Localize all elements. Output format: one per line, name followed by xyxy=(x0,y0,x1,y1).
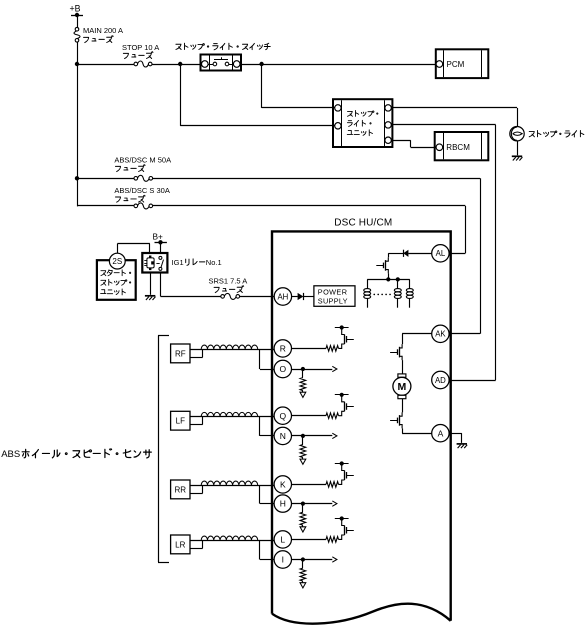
wire stop light unit to RBCM xyxy=(391,140,436,147)
wire sensor LF return to pin N xyxy=(260,417,275,436)
pin O of DSC HU/CM xyxy=(274,360,291,377)
wire ABS/DSC M 50A feed to DSC pin AK xyxy=(77,178,481,333)
wire pin N test point arrow xyxy=(292,433,337,438)
svg-text:SUPPLY: SUPPLY xyxy=(318,297,348,306)
wire solenoid rail xyxy=(367,279,410,281)
label stop light lamp xyxy=(529,131,584,138)
bracket ABS wheel speed sensor group xyxy=(158,336,169,563)
svg-text:O: O xyxy=(279,364,286,374)
svg-text:2S: 2S xyxy=(112,257,122,266)
pin N of DSC HU/CM xyxy=(274,427,291,444)
wire sensor RR return to pin H xyxy=(260,485,275,503)
block POWER SUPPLY xyxy=(314,286,355,307)
fuse ABS/DSC M 50A xyxy=(134,175,153,181)
wire sensor RR twisted pair to pin K xyxy=(190,481,274,493)
node B+ terminal xyxy=(153,231,167,244)
pin AK of DSC HU/CM xyxy=(432,325,449,342)
wire relay to SRS1 fuse to DSC pin AH xyxy=(161,273,275,297)
svg-text:PCM: PCM xyxy=(447,60,465,69)
pin AH of DSC HU/CM xyxy=(274,288,291,305)
svg-text:No.1: No.1 xyxy=(206,258,222,267)
svg-text:DSC HU/CM: DSC HU/CM xyxy=(334,218,392,229)
svg-text:ABS/DSC S 30A: ABS/DSC S 30A xyxy=(114,186,169,195)
label stop light switch xyxy=(176,43,270,50)
wire relay coil to ground xyxy=(150,273,152,295)
resistor pull-down I xyxy=(300,560,306,583)
label ABS/DSC M 50A fuse xyxy=(114,155,171,171)
wire sensor RF return to pin O xyxy=(260,349,275,369)
label ABS wheel speed sensors xyxy=(1,449,151,461)
node +B battery terminal xyxy=(70,4,84,18)
pin R of DSC HU/CM xyxy=(274,340,291,357)
wire B+ into relay xyxy=(160,242,162,253)
ground reference arrow I xyxy=(300,583,306,588)
svg-text:Q: Q xyxy=(279,411,286,421)
svg-text:R: R xyxy=(280,343,286,353)
svg-text:I: I xyxy=(282,555,284,565)
ground reference arrow H xyxy=(300,527,306,532)
svg-text:+B: +B xyxy=(70,4,81,14)
wire pin I test point arrow xyxy=(292,557,337,562)
wire sensor LR twisted pair to pin L xyxy=(190,536,274,548)
connector U2 stop light unit xyxy=(333,99,392,147)
wire stop light unit to DSC pin AD xyxy=(391,125,495,381)
svg-text:ABS: ABS xyxy=(1,449,20,460)
coil L3 solenoid valve xyxy=(406,279,413,307)
wire junction to stop-light unit upper-left pin xyxy=(262,64,335,108)
node coil 2 junction xyxy=(396,277,400,281)
ground relay coil xyxy=(145,296,156,300)
label start-stop unit xyxy=(101,270,131,295)
svg-text:N: N xyxy=(280,431,286,441)
node pin I junction xyxy=(301,557,305,561)
motor M1 ABS pump motor xyxy=(393,374,411,399)
resistor pull-down O xyxy=(300,369,306,392)
svg-text:H: H xyxy=(280,499,286,509)
wire main stop-light feed xyxy=(77,64,436,66)
wire ABS/DSC S 30A feed to DSC pin AL xyxy=(77,206,466,254)
wire junction to stop-light unit lower-left pin xyxy=(180,64,335,126)
sensor LF ABS wheel speed sensor xyxy=(171,411,190,430)
pin AD of DSC HU/CM xyxy=(432,371,449,388)
wire stop light unit to stop light lamp xyxy=(391,108,517,127)
transistor sensor comparator R xyxy=(335,325,354,344)
ground reference arrow N xyxy=(300,459,306,464)
fuse MAIN 200 A xyxy=(74,27,80,42)
connector U1 PCM xyxy=(436,49,489,78)
svg-text:RBCM: RBCM xyxy=(446,143,470,152)
svg-text:MAIN 200 A: MAIN 200 A xyxy=(83,26,123,35)
svg-text:K: K xyxy=(280,479,286,489)
diode D2 solenoid supply xyxy=(388,250,431,257)
relay K1 IG1 relay No.1 xyxy=(142,253,167,273)
svg-text:LF: LF xyxy=(176,417,185,426)
label stop light unit xyxy=(347,110,378,135)
wire start-stop unit pin 2S to relay coil xyxy=(117,244,149,254)
pin AL of DSC HU/CM xyxy=(432,245,449,262)
wire +B vertical feed xyxy=(77,15,79,206)
svg-text:POWER: POWER xyxy=(318,287,348,296)
transistor Q1 solenoid driver xyxy=(376,253,388,279)
wire mosfet to pin A xyxy=(402,428,432,433)
wire sensor LR return to pin I xyxy=(260,540,275,559)
resistor input filter K xyxy=(292,480,345,487)
module U5 DSC HU/CM enclosure xyxy=(272,231,451,623)
wire dotted more-coils indication xyxy=(374,293,394,295)
transistor sensor comparator L xyxy=(335,516,354,535)
sensor RF ABS wheel speed sensor xyxy=(171,344,190,363)
svg-text:IG1: IG1 xyxy=(172,258,184,267)
label IG1 relay No.1 xyxy=(172,258,222,267)
resistor input filter L xyxy=(292,535,345,542)
wire sensor LF twisted pair to pin Q xyxy=(190,412,274,424)
node junction +B / stop-light feed xyxy=(75,62,79,66)
resistor pull-down H xyxy=(300,504,306,527)
svg-text:AD: AD xyxy=(435,376,446,385)
svg-text:M: M xyxy=(398,381,407,393)
wire mosfet to motor xyxy=(402,360,404,374)
node pin O junction xyxy=(301,367,305,371)
label SRS1 7.5 A fuse xyxy=(209,277,248,293)
svg-text:AL: AL xyxy=(436,249,446,258)
connector U3 RBCM xyxy=(435,132,489,160)
transistor sensor comparator Q xyxy=(335,393,354,412)
switch S1 stop light switch xyxy=(201,55,242,71)
fuse SRS1 7.5 A xyxy=(221,293,240,299)
svg-text:RF: RF xyxy=(175,349,186,358)
svg-text:L: L xyxy=(280,534,285,544)
pin A of DSC HU/CM xyxy=(432,425,449,442)
svg-text:RR: RR xyxy=(175,485,187,494)
transistor sensor comparator K xyxy=(335,461,354,480)
pin Q of DSC HU/CM xyxy=(274,407,291,424)
ground stop light lamp xyxy=(512,156,523,160)
pin L of DSC HU/CM xyxy=(274,531,291,548)
resistor input filter Q xyxy=(292,411,345,418)
node pin H junction xyxy=(301,502,305,506)
wire pin A to ground xyxy=(449,433,462,443)
node junction to stop-light unit pin A xyxy=(259,62,263,66)
wire pin O test point arrow xyxy=(292,366,337,371)
node junction to stop-light unit pin B xyxy=(178,62,182,66)
coil L2 solenoid valve xyxy=(394,279,401,307)
label MAIN 200 A fuse xyxy=(83,26,123,42)
svg-text:LR: LR xyxy=(175,540,185,549)
fuse ABS/DSC S 30A xyxy=(134,203,153,209)
svg-text:ABS/DSC M 50A: ABS/DSC M 50A xyxy=(114,155,171,164)
node pin N junction xyxy=(301,434,305,438)
wire AK to pump motor branch xyxy=(402,334,432,345)
sensor LR ABS wheel speed sensor xyxy=(171,535,190,554)
transistor Q3 motor driver low xyxy=(390,412,402,428)
svg-text:A: A xyxy=(438,428,444,438)
sensor RR ABS wheel speed sensor xyxy=(171,480,190,499)
ground reference arrow O xyxy=(300,392,306,397)
svg-text:STOP 10 A: STOP 10 A xyxy=(122,43,159,52)
diode D1 power supply input xyxy=(292,293,314,300)
node solenoid rail junction xyxy=(386,277,390,281)
pin H of DSC HU/CM xyxy=(274,495,291,512)
wire pin H test point arrow xyxy=(292,501,337,506)
label DSC HU/CM xyxy=(334,218,392,229)
resistor input filter R xyxy=(292,344,345,351)
ground DSC pin A xyxy=(457,444,468,448)
resistor pull-down N xyxy=(300,436,306,459)
svg-text:B+: B+ xyxy=(153,231,164,241)
pin 2S of start-stop unit xyxy=(109,253,125,269)
fuse STOP 10 A xyxy=(134,61,152,67)
pin K of DSC HU/CM xyxy=(274,476,291,493)
label ABS/DSC S 30A fuse xyxy=(114,186,169,202)
transistor Q2 motor driver high xyxy=(390,344,402,360)
svg-text:AK: AK xyxy=(435,330,446,339)
label STOP 10 A fuse xyxy=(122,43,159,59)
svg-text:AH: AH xyxy=(277,292,288,301)
node junction ABS/DSC M fuse tap xyxy=(75,176,79,180)
wire motor to low-side mosfet xyxy=(402,399,404,413)
lamp E1 stop light xyxy=(510,127,524,141)
pin I of DSC HU/CM xyxy=(274,551,291,568)
coil L1 solenoid valve xyxy=(364,279,371,307)
wire sensor RF twisted pair to pin R xyxy=(190,345,274,357)
connector U4 start-stop unit xyxy=(97,260,136,300)
svg-text:SRS1 7.5 A: SRS1 7.5 A xyxy=(209,277,248,286)
wire stop light lamp to ground xyxy=(517,141,519,155)
